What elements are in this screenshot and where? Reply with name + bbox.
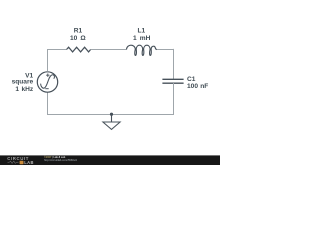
ground stub wire: [111, 115, 113, 123]
svg-text:square: square: [12, 79, 34, 86]
footer watermark bar: [0, 155, 220, 165]
wire left vertical lower: [47, 92, 49, 115]
footer CircuitLab logo LAB box: [20, 161, 24, 165]
svg-text:100 nF: 100 nF: [187, 83, 208, 90]
footer CircuitLab logo resistor zigzag: [8, 161, 19, 164]
wire bottom horizontal: [48, 114, 175, 116]
resistor R1: [67, 47, 91, 52]
svg-text:R1: R1: [74, 28, 83, 35]
source V1 minus sign: [45, 88, 48, 90]
svg-text:L1: L1: [137, 28, 145, 35]
junction node dot: [110, 113, 113, 116]
wire right vertical upper: [173, 49, 175, 79]
wire top-right horizontal: [157, 49, 174, 51]
capacitor C1 top plate: [162, 78, 183, 80]
svg-text:http://circuitlab.com/5566u3: http://circuitlab.com/5566u3: [44, 158, 77, 162]
wire top-middle horizontal: [91, 49, 127, 51]
source V1 plus sign: [46, 74, 49, 77]
svg-text:1 mH: 1 mH: [133, 35, 151, 42]
svg-text:1 kHz: 1 kHz: [15, 86, 34, 93]
wire right vertical lower: [173, 83, 175, 115]
wire left vertical upper: [47, 49, 49, 72]
inductor L1: [127, 45, 158, 55]
wire top-left horizontal: [48, 49, 67, 51]
capacitor C1 bottom plate: [162, 82, 183, 84]
source V1 waveform squiggle: [41, 75, 55, 88]
svg-text:10 Ω: 10 Ω: [70, 35, 86, 42]
source V1 circle: [37, 72, 57, 92]
svg-text:LAB: LAB: [24, 160, 33, 165]
ground symbol triangle: [103, 122, 120, 129]
